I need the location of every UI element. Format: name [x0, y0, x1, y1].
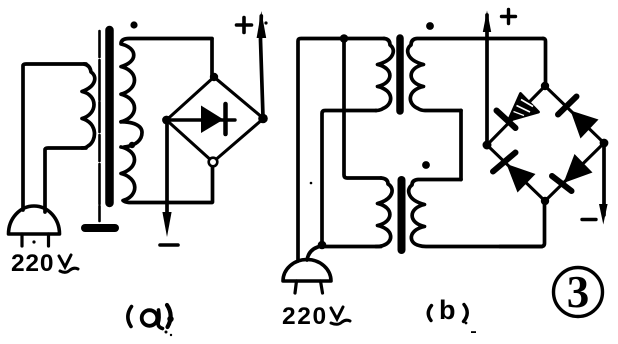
svg-text:220: 220	[282, 303, 328, 330]
svg-text:3: 3	[567, 267, 590, 317]
svg-text:b: b	[439, 295, 456, 325]
svg-text:220: 220	[11, 250, 54, 277]
